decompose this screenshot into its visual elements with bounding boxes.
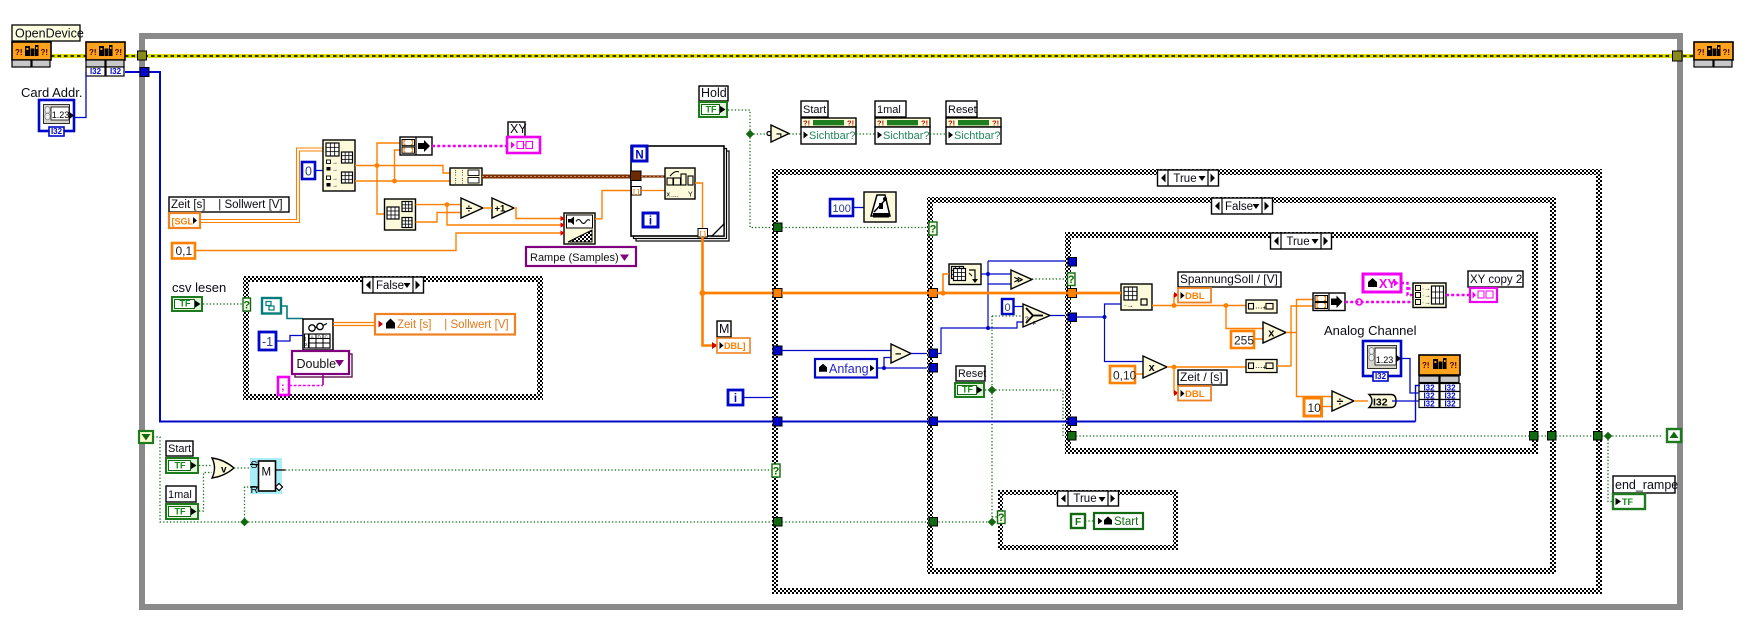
label Start control (166, 441, 193, 456)
svg-text:Start: Start (168, 443, 191, 455)
wire vertical down to index array 2 (377, 166, 385, 215)
svg-text:?!: ?! (15, 48, 23, 57)
svg-text:TF: TF (1622, 497, 1633, 507)
svg-text:XY: XY (1379, 277, 1396, 291)
orange tunnel middle case (929, 289, 938, 298)
wire 1mal to Reset property (930, 133, 946, 135)
green tunnel reset inner (1068, 432, 1077, 441)
N terminal (632, 146, 647, 161)
boolean control 1mal (165, 503, 199, 520)
svg-text:?!: ?! (992, 119, 999, 128)
svg-text:TF: TF (706, 105, 717, 115)
svg-text:I32: I32 (51, 127, 63, 136)
constant 255 (1231, 331, 1254, 348)
wire Card Addr to VI (74, 72, 86, 118)
svg-text:100: 100 (833, 203, 851, 215)
svg-text:?: ? (1025, 316, 1029, 323)
wire 0,10 to multiply (1135, 373, 1143, 375)
svg-text:?: ? (1068, 274, 1075, 286)
svg-text:¬: ¬ (776, 130, 782, 141)
dotted R input (245, 487, 251, 522)
svg-text:?: ? (773, 466, 780, 478)
SGL array control (169, 213, 200, 228)
multiply node 255 (1263, 322, 1286, 343)
wire orange into index node (1076, 292, 1121, 295)
green tunnel outer case right (1594, 432, 1603, 441)
multiply node Zeit (1143, 356, 1167, 378)
tunnel hold wire (774, 223, 783, 232)
svg-text:F: F (1075, 517, 1081, 528)
index array node 2 (385, 199, 416, 230)
svg-text:1mal: 1mal (877, 104, 901, 116)
indicator M DBL array (717, 338, 750, 353)
svg-text:+1: +1 (494, 203, 506, 214)
subtract node (891, 344, 911, 363)
wire divide to I32 (1354, 400, 1368, 402)
error wire tunnel right (1673, 51, 1683, 61)
blue tunnel Anfang in (929, 364, 938, 373)
wire NOT to Start property (789, 133, 801, 135)
svg-text:DBL]: DBL] (724, 341, 746, 351)
label Zeit Sollwert control (169, 197, 289, 212)
label end_rampe (1613, 476, 1675, 493)
wire Analog Channel to DAQ (1401, 359, 1420, 394)
svg-text:0: 0 (305, 165, 312, 179)
shift register right / loop condition (1667, 429, 1681, 442)
wire I32 to DAQ node (1392, 400, 1420, 402)
dotted from shift register (153, 437, 774, 522)
wire main orange through middle case (937, 292, 1068, 295)
case selector label True inner (1271, 233, 1332, 249)
array node out wires (981, 273, 1011, 275)
svg-text:Sichtbar?: Sichtbar? (883, 130, 929, 142)
label OpenDevice (12, 25, 80, 41)
string constant semicolon (278, 377, 289, 395)
numeric control Card Addr. (39, 100, 74, 131)
wire multiply out to build and divide (1286, 300, 1313, 333)
wire 0,1 to ramp (195, 233, 564, 251)
case selector label True outer (1158, 170, 1219, 186)
path constant (262, 298, 281, 314)
svg-text:Sichtbar?: Sichtbar? (809, 130, 855, 142)
svg-text:10: 10 (1308, 401, 1322, 415)
wire index out to SpannungSoll and build (1152, 305, 1246, 307)
svg-text:·→: ·→ (1422, 293, 1431, 300)
wire blue bus outer case segment (782, 421, 929, 423)
build array small node 2 (1246, 360, 1277, 373)
svg-text:I32: I32 (1375, 372, 1387, 381)
svg-text:Zeit [s] | Sollwert [V]: Zeit [s] | Sollwert [V] (397, 319, 509, 331)
ramp pattern node (564, 213, 595, 244)
wire vertical branch to build array (377, 143, 400, 166)
wire subtract out (911, 353, 929, 355)
local variable XY (1363, 274, 1401, 292)
svg-text:→: → (332, 160, 338, 166)
svg-text:OpenDevice: OpenDevice (15, 27, 84, 41)
svg-text:I32: I32 (90, 67, 102, 76)
orange tunnel outer case (773, 289, 782, 298)
string wire semicolon (289, 385, 323, 387)
property node Reset (946, 101, 977, 117)
OR gate (212, 458, 234, 478)
interpolate array icon inside for loop (665, 168, 695, 199)
local variable Zeit DBL (1178, 386, 1211, 401)
svg-text:?!: ?! (803, 119, 810, 128)
orange array wire down from for loop (703, 237, 718, 346)
blue tunnel bus inner (1068, 417, 1077, 426)
wire Start to 1mal property (856, 133, 875, 135)
svg-text:False: False (376, 280, 404, 292)
blue tunnel inner top (1068, 258, 1077, 267)
orange feed to array node (943, 274, 949, 293)
auto-index tunnel out (698, 229, 708, 238)
svg-text:−: − (895, 348, 901, 360)
svg-text:?!: ?! (877, 119, 884, 128)
constant i (728, 390, 743, 405)
label Zeit / [s] (1178, 370, 1227, 385)
svg-text:Reset: Reset (958, 368, 986, 380)
constant F (1071, 514, 1085, 528)
svg-text:≫: ≫ (1014, 275, 1023, 285)
wire Anfang out (877, 367, 929, 369)
case selector tunnel outer (772, 464, 780, 477)
ring constant Double (295, 354, 352, 377)
svg-text:0: 0 (1005, 302, 1011, 314)
boolean control Reset (954, 382, 985, 398)
svg-text:I32: I32 (1423, 400, 1435, 409)
wire tunnel to subtract (782, 350, 891, 352)
array size node (949, 264, 981, 285)
error wire yellow dashed (51, 54, 86, 58)
magenta wire bundle to XY copy 2 (1446, 294, 1470, 296)
constant 0 select (1002, 299, 1014, 314)
index array node inner (1121, 284, 1152, 310)
svg-text:?!: ?! (1723, 48, 1731, 57)
svg-text:?: ? (243, 300, 250, 312)
while loop border (142, 36, 1680, 607)
svg-text:Reset: Reset (948, 104, 977, 116)
for loop page curl (712, 224, 724, 236)
svg-text:;: ; (281, 381, 285, 393)
svg-text:DBL: DBL (1185, 291, 1205, 302)
svg-text:TF: TF (180, 299, 191, 309)
ring constant Rampe (Samples) (526, 247, 636, 266)
blue tunnel outer case y350 (773, 346, 782, 355)
label SpannungSoll (1178, 272, 1281, 287)
label Hold (699, 86, 728, 101)
property node 1mal (875, 101, 906, 117)
svg-text:Zeit [s] | Sollwert [V]: Zeit [s] | Sollwert [V] (171, 199, 283, 211)
label Reset control (956, 366, 985, 381)
svg-text:?: ? (998, 512, 1005, 524)
svg-text:Analog Channel: Analog Channel (1324, 323, 1417, 338)
svg-text:False: False (1225, 201, 1253, 213)
wire select value to index and multiply (1076, 316, 1105, 318)
wire 100 to wait (853, 207, 864, 209)
svg-text:end_rampe: end_rampe (1615, 478, 1678, 492)
indicator end_rampe TF (1613, 494, 1645, 509)
wire index2 out1 to divide (416, 204, 462, 206)
local variable Anfang (815, 359, 877, 378)
dotted F to Start local (1085, 520, 1094, 522)
svg-text:M: M (262, 467, 272, 479)
svg-text:True: True (1286, 236, 1309, 248)
svg-text:Zeit / [s]: Zeit / [s] (1180, 370, 1223, 384)
shift register left (139, 431, 153, 443)
wire index node out1 (355, 166, 450, 174)
svg-text:255: 255 (1234, 334, 1254, 348)
magenta wires to bundle (1345, 301, 1413, 303)
wire node2 out up to build2 (1277, 306, 1313, 366)
case selector label False middle (1212, 198, 1273, 214)
wire multiply zeit out (1167, 366, 1246, 368)
wire branch up to build array in2 (395, 150, 401, 181)
selector tunnel middle case (929, 222, 937, 235)
svg-text:÷: ÷ (466, 201, 473, 215)
orange tunnel inner (1068, 289, 1077, 298)
error wire tunnel left (138, 51, 147, 60)
path wire to read node (281, 306, 303, 319)
auto-index tunnel in (632, 187, 642, 196)
dotted stub into small case (992, 516, 998, 518)
svg-text:....: .... (671, 192, 679, 199)
svg-text:Double: Double (297, 357, 337, 371)
divide node DAQ (1332, 391, 1354, 411)
svg-text:x: x (1268, 327, 1275, 339)
dotted 1mal to OR (199, 473, 212, 512)
svg-text:[SGL: [SGL (172, 217, 194, 227)
main orange array wire (703, 292, 1122, 295)
wire 10 to divide (1322, 406, 1333, 408)
svg-text:N: N (635, 150, 643, 162)
svg-text:Y: Y (688, 192, 693, 199)
svg-text:i: i (649, 216, 652, 228)
wire index node out2 (355, 180, 450, 182)
boolean control csv lesen (171, 296, 203, 312)
green tunnel inner right (1530, 432, 1539, 441)
wire divide to +1 (483, 207, 492, 209)
svg-text:?!: ?! (921, 119, 928, 128)
wire index2 out2 to divide lower (416, 213, 462, 223)
svg-text:?!: ?! (948, 119, 955, 128)
2D array wire node to local (333, 322, 375, 324)
green tunnel 1mal middle (929, 518, 938, 527)
svg-text:M: M (719, 322, 729, 336)
constant 0,10 (1110, 366, 1135, 383)
build array small node 1 (1246, 300, 1277, 313)
svg-text:1mal: 1mal (168, 489, 192, 501)
svg-text:?!: ?! (89, 48, 97, 57)
constant 0,1 (172, 243, 195, 259)
case structure outer True (772, 169, 1602, 594)
svg-text:→: → (332, 176, 338, 182)
wire blue bus middle case segment (937, 421, 1068, 423)
case selector label small True (1058, 491, 1119, 506)
svg-text:Card Addr.: Card Addr. (21, 85, 82, 100)
svg-text:XY: XY (510, 122, 527, 136)
boolean control Hold (698, 101, 728, 118)
dotted reset wire inside inner case (1076, 435, 1530, 437)
bundle node XY graph (1413, 283, 1446, 308)
svg-text:TF: TF (175, 461, 186, 471)
svg-text:Hold: Hold (701, 86, 727, 100)
svg-text:csv lesen: csv lesen (172, 280, 226, 295)
svg-text:?: ? (930, 224, 937, 236)
green tunnel outer case y521 (774, 518, 783, 527)
blue tunnel subtract in (929, 349, 938, 358)
blue tunnel select in (1068, 313, 1077, 322)
svg-text:Start: Start (803, 104, 826, 116)
blue tunnel on while loop (140, 68, 149, 77)
wire blue bus inner case segment (1076, 421, 1416, 423)
blue tunnel outer case y421 (773, 417, 782, 426)
wire 0 to index node (315, 170, 323, 172)
boolean control Start (165, 457, 199, 474)
wire Hold to NOT and case (728, 110, 750, 134)
wait ms metronome node (864, 192, 896, 222)
case selector label False csv (363, 277, 424, 293)
svg-text:·→: ·→ (1422, 300, 1431, 307)
cluster array wire to for loop (482, 175, 633, 179)
indicator XY copy 2 (1470, 288, 1497, 302)
svg-text:x: x (1149, 362, 1156, 374)
numeric control Analog Channel (1363, 341, 1401, 376)
small case structure True (998, 490, 1178, 550)
svg-text:True: True (1073, 493, 1096, 505)
svg-text:XY copy 2: XY copy 2 (1470, 274, 1522, 286)
svg-text:True: True (1173, 173, 1196, 185)
svg-text:SpannungSoll / [V]: SpannungSoll / [V] (1180, 272, 1278, 286)
constant -1 (259, 332, 276, 350)
svg-text:TF: TF (175, 507, 186, 517)
indicator XY (507, 137, 540, 153)
increment node +1 (492, 198, 514, 218)
constant 100 (830, 199, 853, 216)
CloseDevice VI icon top right (1694, 42, 1733, 60)
svg-text:-1: -1 (262, 335, 273, 349)
svg-text:[ ]: [ ] (633, 189, 639, 196)
convert to I32 node (1369, 395, 1396, 408)
svg-text:DBL: DBL (1185, 389, 1205, 400)
svg-text:·→: ·→ (1422, 286, 1431, 293)
greater or equal node (1011, 270, 1032, 289)
svg-text:?!: ?! (1450, 361, 1458, 370)
svg-text:?!: ?! (115, 48, 123, 57)
i terminal (643, 213, 658, 227)
index & bundle cluster array node (323, 140, 355, 191)
build array node XY (400, 137, 432, 155)
wire +1 to ramp in1 (514, 208, 564, 219)
svg-text:[ ]: [ ] (700, 231, 706, 238)
select node (1023, 304, 1050, 327)
svg-text:→: → (332, 167, 338, 173)
dotted wire hold inside case (782, 227, 929, 229)
wire branch to ramp in2 (447, 205, 564, 225)
svg-text:1.23: 1.23 (52, 110, 70, 120)
SR latch (250, 458, 282, 494)
svg-text:?!: ?! (1697, 48, 1705, 57)
svg-text:Start: Start (1114, 516, 1139, 528)
dotted csv to case selector (203, 303, 243, 305)
wire 0 to select (1014, 306, 1024, 308)
dotted Start to OR (199, 465, 212, 467)
wire main orange through outer case (782, 292, 929, 295)
svg-text:→: → (332, 183, 338, 189)
wire icon to out tunnel (695, 183, 703, 229)
label XY (508, 122, 525, 137)
property node Start (801, 101, 828, 117)
divide node (461, 198, 483, 218)
local variable Start (1094, 513, 1143, 529)
green tunnel middle right (1548, 432, 1557, 441)
svg-text:I32: I32 (1373, 397, 1388, 409)
wire -1 to node (276, 336, 303, 342)
svg-text:I32: I32 (1444, 400, 1456, 409)
orange wire inside for loop (641, 190, 665, 192)
svg-text:R: R (251, 484, 259, 496)
svg-text:0,10: 0,10 (1113, 369, 1137, 383)
blue wire branch up to DAQ (1416, 386, 1421, 422)
svg-text:÷: ÷ (1337, 394, 1344, 408)
label XY copy 2 (1468, 271, 1523, 287)
for loop frame stacked (636, 151, 729, 241)
local variable SpannungSoll DBL (1178, 288, 1211, 303)
case structure csv False (243, 276, 543, 400)
NOT gate (771, 125, 789, 142)
svg-text:?!: ?! (847, 119, 854, 128)
svg-text:·→: ·→ (1124, 303, 1133, 310)
blue I32 wire into loop (125, 72, 1416, 422)
wire i to case (743, 397, 777, 399)
interleave arrays node (450, 168, 482, 185)
dotted latch output to case selector (285, 469, 772, 471)
svg-text:i: i (734, 393, 737, 405)
constant 10 (1304, 398, 1322, 416)
svg-text:Anfang: Anfang (829, 362, 869, 376)
svg-text:TF: TF (962, 385, 973, 395)
svg-text:I32: I32 (110, 67, 122, 76)
svg-text:0,1: 0,1 (176, 244, 193, 258)
constant 0 (302, 162, 315, 179)
dotted gte out to selector tunnel (1032, 278, 1068, 280)
selector tunnel csv case (243, 298, 251, 311)
case structure inner True (1065, 232, 1538, 454)
wire ramp out to for loop tunnel (595, 191, 633, 219)
cluster array tunnel on for loop (631, 171, 642, 181)
OpenDevice VI icon (12, 42, 51, 60)
build array node 2-in (1313, 293, 1345, 311)
label M (717, 321, 731, 337)
svg-text:x: x (667, 192, 671, 199)
selector tunnel inner (1068, 273, 1076, 286)
wire Double type up to node (322, 350, 324, 385)
svg-text:?!: ?! (41, 48, 49, 57)
dotted Reset wires (985, 389, 992, 391)
svg-text:Sichtbar?: Sichtbar? (954, 130, 1000, 142)
magenta wire to XY indicator (432, 145, 507, 148)
wire select out (1050, 315, 1068, 317)
case structure middle False (927, 197, 1556, 574)
local variable Zeit Sollwert (375, 314, 515, 335)
svg-text:v: v (221, 465, 227, 476)
blue tunnel bus middle (929, 417, 938, 426)
label 1mal control (166, 486, 196, 502)
SetDevice VI icon (86, 42, 125, 60)
wire SGL to bundle node (2D array double line) (200, 148, 323, 220)
dotted OR to latch (234, 467, 250, 469)
wire 255 to multiply (1254, 338, 1263, 340)
svg-text:A: A (311, 335, 314, 340)
